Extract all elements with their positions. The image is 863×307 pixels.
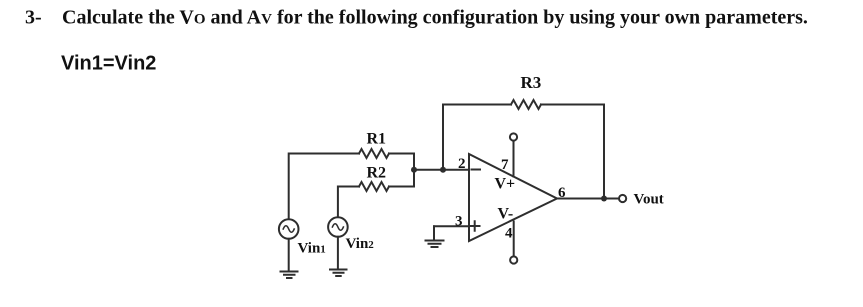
wire inverting input node to pin 2 [414, 169, 469, 171]
wire pin 7 V+ stub [513, 141, 515, 177]
svg-text:R3: R3 [521, 73, 542, 92]
wire feedback right vertical [603, 105, 605, 199]
ground pin 3 [426, 241, 444, 248]
svg-text:Vin2: Vin2 [346, 236, 375, 252]
wire pin 3 input [434, 225, 469, 227]
resistor R1 [359, 149, 389, 158]
op-amp minus sign pin 2 [472, 169, 481, 171]
terminal circle pin 4 [510, 256, 517, 263]
junction dot R1-R2 node [411, 167, 417, 173]
wire R2 right to junction [389, 186, 414, 188]
svg-text:3-: 3- [25, 7, 42, 29]
wire top rail right [541, 104, 604, 106]
wire output [557, 198, 619, 200]
wire R1 right to junction [389, 153, 414, 155]
svg-text:R1: R1 [367, 131, 387, 148]
source Vin2 sine [332, 224, 343, 231]
resistor R2 [359, 182, 389, 191]
terminal circle Vout [619, 195, 626, 202]
junction dot output node [601, 196, 607, 202]
wire top rail left [443, 104, 511, 106]
svg-text:Vout: Vout [634, 192, 664, 208]
op-amp U1 triangle [469, 154, 557, 241]
svg-text:V+: V+ [495, 176, 516, 193]
svg-text:R2: R2 [367, 165, 387, 182]
wire pin 3 ground stub [433, 226, 435, 240]
svg-text:2: 2 [458, 156, 466, 172]
terminal circle pin 7 [510, 133, 517, 140]
svg-text:Calculate the VO and AV for th: Calculate the VO and AV for the followin… [62, 7, 808, 29]
junction dot feedback node [440, 167, 446, 173]
svg-text:Vin1: Vin1 [298, 241, 326, 257]
wire junction vertical R1-R2 [413, 154, 415, 187]
wire Vin1 to ground [288, 239, 290, 271]
ground Vin1 [281, 272, 298, 279]
wire pin 4 V- stub [513, 222, 515, 257]
title line [25, 7, 808, 29]
svg-text:Vin1=Vin2: Vin1=Vin2 [61, 53, 156, 75]
ground Vin2 [330, 270, 347, 277]
wire R2 left vertical from source Vin2 [338, 187, 359, 218]
svg-text:4: 4 [505, 226, 513, 242]
svg-text:3: 3 [455, 214, 463, 230]
source Vin1 circle [279, 219, 299, 239]
source Vin2 circle [328, 217, 348, 237]
svg-text:7: 7 [501, 157, 509, 173]
op-amp plus sign pin 3 [470, 221, 480, 231]
source Vin1 sine [283, 226, 294, 233]
wire R1 left vertical from source Vin1 [289, 154, 359, 220]
svg-text:V-: V- [498, 206, 514, 223]
wire feedback vertical [442, 105, 444, 170]
wire Vin2 to ground [337, 237, 339, 269]
svg-text:6: 6 [558, 185, 566, 201]
resistor R3 [511, 100, 541, 109]
